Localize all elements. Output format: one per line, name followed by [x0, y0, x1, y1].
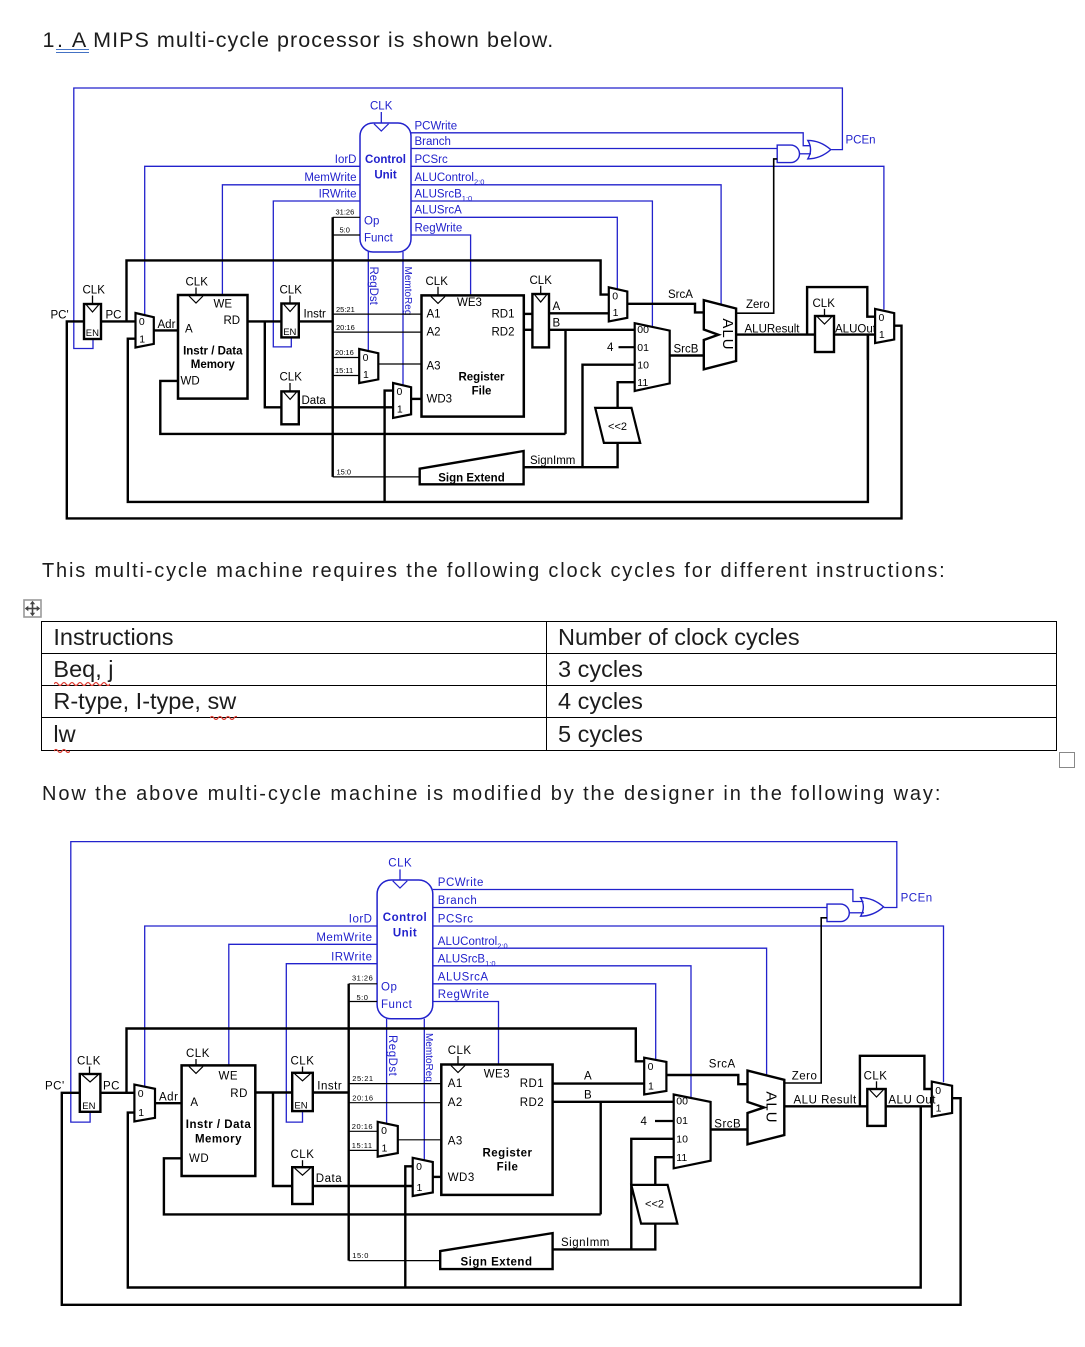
OR gate (PCWrite or branch-taken) [808, 140, 831, 159]
svg-text:10: 10 [637, 359, 649, 371]
svg-text:Instr / Data: Instr / Data [186, 1119, 252, 1131]
label ALUSrcB 1:0 [415, 188, 473, 202]
svg-text:EN: EN [82, 1101, 95, 1112]
ALU (modified) [748, 1071, 785, 1145]
wire Zero to AND gate [736, 159, 777, 313]
svg-text:A: A [185, 324, 193, 336]
svg-text:1: 1 [363, 369, 369, 381]
wire instr 20:16 to A2 [333, 331, 422, 333]
wire IorD to Adr mux select [145, 926, 377, 1087]
svg-text:Sign Extend: Sign Extend [461, 1257, 533, 1269]
wire instr 5:0 to Funct [333, 234, 360, 236]
wire CLK tick into memory [195, 288, 197, 296]
wire PC up and over to SrcA mux input 0 [127, 260, 609, 321]
wire shifted immediate to SrcB mux input 11 [618, 382, 635, 408]
wire ALUResult up-over to result mux input 0 [807, 287, 875, 335]
register Instr [292, 1073, 313, 1112]
svg-text:5:0: 5:0 [357, 993, 369, 1002]
label 20:16 (regdst 0) [352, 1122, 373, 1131]
paragraph 2 [42, 560, 947, 583]
svg-text:CLK: CLK [280, 372, 303, 384]
mux IorD (Adr select) [136, 313, 154, 348]
wire shifted immediate to SrcB mux input 11 [655, 1157, 673, 1185]
wire ALUResult to ALUOut register [784, 1105, 867, 1107]
wire B down to WD path [564, 330, 566, 434]
wire MemtoReg mux to WD3 [411, 398, 421, 400]
wire MemtoReg mux to WD3 [433, 1176, 442, 1178]
svg-text:1: 1 [648, 1080, 654, 1092]
svg-text:Register: Register [482, 1148, 532, 1160]
svg-text:SrcA: SrcA [668, 289, 693, 301]
svg-text:Memory: Memory [191, 359, 236, 371]
svg-text:00: 00 [676, 1095, 688, 1107]
wire AND output to OR input [800, 153, 812, 155]
sign extend unit [420, 451, 524, 485]
label Adr [159, 1092, 178, 1104]
label 20:16 [336, 323, 355, 332]
wire SignImm [553, 1224, 656, 1250]
svg-text:ALUSrcA: ALUSrcA [438, 972, 489, 984]
svg-text:1: 1 [613, 307, 619, 319]
wire Result to PC-prime [67, 321, 902, 518]
mux MemtoReg [413, 1158, 433, 1196]
wire RegDst to RegDst mux select [386, 1019, 388, 1124]
wire ALUSrcB to SrcB mux select [411, 201, 652, 327]
wire CLK tick into PC register [92, 296, 94, 305]
svg-text:Op: Op [364, 216, 379, 228]
wire RD2 to AB register [524, 329, 533, 331]
label 5:0 [340, 225, 350, 234]
mux ALUSrcB [674, 1095, 711, 1169]
svg-text:RD1: RD1 [520, 1078, 545, 1090]
label IorD [349, 914, 373, 926]
wire RegWrite to register file WE3 [411, 235, 471, 295]
register ALUOut [815, 316, 834, 352]
svg-text:EN: EN [294, 1100, 307, 1111]
wire PCWrite to OR gate [411, 133, 811, 146]
svg-text:4: 4 [641, 1116, 648, 1128]
wire instr register output to instr bus [313, 1091, 349, 1093]
svg-text:10: 10 [676, 1133, 688, 1145]
label A (node) [584, 1071, 592, 1083]
wire instr 20:16 to RegDst mux input 0 [349, 1130, 378, 1132]
label CLK (control unit) [388, 858, 412, 870]
svg-text:25:21: 25:21 [336, 305, 355, 314]
svg-text:CLK: CLK [448, 1045, 472, 1057]
label PC [106, 310, 122, 322]
svg-text:A: A [553, 301, 561, 313]
svg-text:B: B [584, 1090, 592, 1102]
wire SrcB to ALU [711, 1128, 748, 1130]
wire RegDst mux to A3 [398, 1139, 442, 1141]
mux PCSrc (result) [932, 1082, 952, 1117]
svg-text:SrcA: SrcA [709, 1059, 736, 1071]
wire CLK tick into control unit [399, 869, 401, 880]
label RegWrite [415, 222, 463, 234]
svg-text:Instr / Data: Instr / Data [183, 345, 243, 357]
label 31:26 [336, 208, 355, 217]
label PC' [51, 310, 69, 322]
wire WD path to memory WD [160, 381, 565, 434]
wire MemtoReg to MemtoReg mux select [423, 1019, 425, 1161]
wire IRWrite to instr register EN [286, 964, 377, 1122]
small square artifact right of table [1059, 752, 1075, 768]
label 31:26 [352, 974, 373, 983]
label 20:16 (regdst 0) [335, 348, 354, 357]
svg-text:A3: A3 [448, 1136, 463, 1148]
diagram: original multicycle MIPS processor [0, 0, 1085, 560]
label CLK (data register) [280, 372, 303, 384]
wire ALUOut feedback up to MemtoReg mux input 0 [405, 1166, 412, 1287]
svg-text:5:0: 5:0 [340, 225, 350, 234]
label Adr [158, 319, 176, 331]
svg-text:0: 0 [139, 316, 145, 328]
svg-text:20:16: 20:16 [352, 1093, 373, 1102]
label ALUSrcA [438, 972, 489, 984]
svg-text:RD1: RD1 [492, 308, 515, 320]
wire CLK tick into ALUOut register [824, 309, 826, 316]
wire data register output to MemtoReg mux input 1 [299, 406, 393, 408]
wire PC up and over to SrcA mux input 0 [127, 1029, 645, 1093]
wire MemtoReg to MemtoReg mux select [402, 252, 404, 386]
svg-text:Data: Data [316, 1173, 342, 1185]
svg-text:25:21: 25:21 [352, 1074, 373, 1083]
wire RD1 (A) to SrcA mux input 1 [553, 1082, 645, 1084]
svg-text:CLK: CLK [186, 277, 209, 289]
wire CLK tick into memory [195, 1059, 197, 1065]
label ALUResult [745, 323, 801, 335]
label MemWrite [304, 172, 356, 184]
label CLK (data register) [291, 1149, 315, 1161]
svg-text:PC: PC [106, 310, 122, 322]
wire RD down to data register [273, 1093, 292, 1187]
wire PCEn to PC register EN [71, 842, 897, 1123]
shifter <<2 [595, 408, 640, 443]
svg-text:1: 1 [382, 1143, 388, 1155]
wire WD path to memory WD [164, 1158, 601, 1214]
svg-text:SrcB: SrcB [674, 344, 699, 356]
svg-text:WD3: WD3 [448, 1172, 475, 1184]
label IorD [335, 154, 357, 166]
label PCSrc [415, 154, 448, 166]
label SignImm [561, 1237, 610, 1249]
wire memory RD to instr register [255, 1091, 292, 1093]
wire IRWrite to instr register EN [273, 201, 360, 347]
label Data [316, 1173, 342, 1185]
label PCWrite [438, 877, 484, 889]
svg-text:WD: WD [181, 375, 200, 387]
wire Zero to AND gate [784, 918, 827, 1083]
svg-text:PCSrc: PCSrc [415, 154, 448, 166]
svg-text:WE: WE [219, 1070, 239, 1082]
label CLK (memory) [186, 277, 209, 289]
label A [553, 301, 561, 313]
svg-text:Zero: Zero [746, 299, 770, 311]
register file [422, 295, 524, 416]
svg-text:IRWrite: IRWrite [319, 188, 357, 200]
svg-text:A1: A1 [427, 308, 441, 320]
svg-text:1: 1 [879, 329, 885, 341]
wire instr 15:0 to sign extend [333, 476, 420, 478]
wire ALUResult up-over to result mux input 0 [860, 1056, 932, 1107]
paragraph 3 [42, 783, 942, 806]
register Data [281, 391, 298, 424]
svg-text:20:16: 20:16 [352, 1122, 373, 1131]
svg-text:CLK: CLK [370, 101, 393, 113]
label ALUControl 2:0 [438, 936, 508, 950]
label Instr [317, 1081, 342, 1093]
svg-text:PCEn: PCEn [901, 892, 933, 904]
mux PCSrc (result) [875, 309, 894, 343]
svg-text:A2: A2 [427, 326, 441, 338]
wire instr 15:11 to RegDst mux input 1 [333, 375, 360, 377]
svg-text:A: A [584, 1071, 592, 1083]
svg-text:CLK: CLK [426, 276, 449, 288]
OR gate (PCWrite or branch-taken) [861, 898, 884, 917]
memory Instr/Data [178, 295, 248, 399]
register Instr [281, 304, 298, 338]
wire SrcA to ALU [627, 304, 704, 313]
sign extend unit [440, 1233, 552, 1269]
wire ALUOut feedback to Adr mux input 1 [128, 1106, 921, 1287]
label Zero [792, 1070, 818, 1082]
wire data register output to MemtoReg mux input 1 [313, 1185, 413, 1187]
svg-text:ALU Out: ALU Out [888, 1095, 936, 1107]
wire instr register output to instr bus [299, 320, 333, 322]
svg-text:CLK: CLK [291, 1149, 315, 1161]
mux RegDst [378, 1122, 398, 1157]
mux MemtoReg [393, 383, 411, 418]
svg-text:0: 0 [612, 291, 618, 303]
svg-text:SignImm: SignImm [561, 1237, 610, 1249]
wire instr 31:26 to Op [349, 983, 377, 985]
wire constant 4 to SrcB mux input 01 [619, 346, 635, 348]
svg-text:RegDst: RegDst [367, 267, 379, 306]
wire ALUOut feedback to Adr mux input 1 [128, 335, 868, 502]
svg-text:Unit: Unit [374, 170, 397, 182]
label 15:0 [337, 468, 352, 477]
register PC [80, 1074, 101, 1112]
svg-text:<<2: <<2 [608, 421, 627, 433]
wire instr 25:21 to A1 [349, 1083, 442, 1085]
svg-text:01: 01 [637, 342, 649, 354]
label Data [302, 395, 327, 407]
label CLK (ALUOut register) [864, 1070, 888, 1082]
svg-text:RegDst: RegDst [386, 1035, 398, 1077]
control unit [360, 123, 411, 252]
label RegWrite [438, 989, 490, 1001]
svg-text:15:0: 15:0 [352, 1251, 369, 1260]
label CLK (PC register) [77, 1056, 101, 1068]
wire RegDst to RegDst mux select [367, 252, 369, 351]
svg-text:RegWrite: RegWrite [438, 989, 490, 1001]
svg-text:CLK: CLK [813, 298, 836, 310]
svg-text:CLK: CLK [530, 275, 553, 287]
label CLK (register file) [448, 1045, 472, 1057]
svg-text:11: 11 [676, 1152, 687, 1164]
label B (node) [584, 1090, 592, 1102]
wire instr 31:26 to Op [333, 216, 360, 218]
svg-text:<<2: <<2 [645, 1199, 664, 1211]
wire CLK tick into instr register [289, 296, 291, 304]
wire instr 15:11 to RegDst mux input 1 [349, 1149, 378, 1151]
label SrcA [709, 1059, 736, 1071]
svg-text:1: 1 [936, 1102, 942, 1114]
wire RD down to data register [265, 321, 282, 407]
register file [441, 1065, 552, 1195]
wire ALUControl to ALU [411, 185, 721, 305]
wire ALUOut to result mux input 1 [834, 333, 875, 335]
wire PCEn to PC register EN [74, 88, 843, 349]
label 15:11 [352, 1141, 373, 1150]
table move handle icon [23, 599, 43, 619]
svg-text:WE: WE [214, 299, 233, 311]
svg-text:Memory: Memory [195, 1134, 242, 1146]
register A/B [532, 294, 549, 347]
svg-text:MemWrite: MemWrite [316, 932, 372, 944]
label 20:16 [352, 1093, 373, 1102]
svg-text:0: 0 [879, 312, 885, 324]
svg-text:Branch: Branch [438, 895, 477, 907]
svg-text:Funct: Funct [381, 999, 413, 1011]
svg-text:IorD: IorD [335, 154, 357, 166]
wire B to SrcB mux input 00 [549, 329, 635, 331]
wire SignImm up to SrcB mux input 10 [583, 365, 635, 468]
svg-text:PC: PC [103, 1081, 120, 1093]
wire SrcB to ALU [670, 354, 704, 356]
svg-text:0: 0 [381, 1125, 387, 1137]
table of clock cycles [41, 621, 1057, 751]
label 15:0 [352, 1251, 369, 1260]
label ALUSrcA [415, 205, 463, 217]
wire PC to Adr mux input 0 [101, 320, 136, 322]
label IRWrite [319, 188, 357, 200]
AND gate (Branch and Zero) [827, 904, 849, 922]
svg-text:Op: Op [381, 982, 397, 994]
svg-text:RD: RD [224, 315, 241, 327]
label CLK (AB register) [530, 275, 553, 287]
svg-text:CLK: CLK [83, 285, 106, 297]
svg-text:PCWrite: PCWrite [438, 877, 484, 889]
wire ALUOut feedback up to MemtoReg mux input 0 [385, 391, 394, 502]
svg-text:Control: Control [383, 912, 427, 924]
diagram: modified multicycle MIPS processor (no A/B register) [0, 830, 1085, 1347]
label CLK (instr register) [280, 285, 303, 297]
svg-text:Instr: Instr [317, 1081, 342, 1093]
control unit (modified) [377, 880, 433, 1019]
label 25:21 [336, 305, 355, 314]
wire instr bus vertical [332, 217, 334, 477]
svg-text:File: File [497, 1162, 519, 1174]
svg-text:1: 1 [417, 1182, 423, 1194]
label CLK (instr register) [291, 1056, 315, 1068]
svg-text:15:11: 15:11 [335, 366, 353, 375]
wire memory RD to instr register [248, 320, 282, 322]
label PC [103, 1081, 120, 1093]
wire Result to PC-prime [62, 1093, 961, 1305]
svg-text:ALU: ALU [719, 318, 736, 350]
shifter <<2 [631, 1185, 677, 1224]
wire CLK tick into instr register [302, 1067, 304, 1073]
svg-text:20:16: 20:16 [336, 323, 355, 332]
ALU [704, 300, 736, 369]
wire instr 20:16 to A2 [349, 1102, 442, 1104]
svg-text:0: 0 [138, 1088, 144, 1100]
label MemtoReg (rotated) [423, 1033, 434, 1082]
label CLK (PC register) [83, 285, 106, 297]
wire ALUOut down to feedback rail [867, 335, 869, 360]
label PCSrc [438, 914, 474, 926]
mux ALUSrcA [644, 1058, 666, 1095]
svg-text:Funct: Funct [364, 233, 394, 245]
wire SignImm up to SrcB mux input 10 [631, 1139, 673, 1250]
svg-text:CLK: CLK [864, 1070, 888, 1082]
wire CLK tick into register file [457, 1056, 459, 1065]
label PC' [45, 1081, 65, 1093]
wire CLK tick into ALUOut register [876, 1081, 878, 1089]
svg-text:Data: Data [302, 395, 327, 407]
wire ALUOut down to feedback rail [920, 1106, 922, 1130]
svg-text:Register: Register [458, 372, 505, 384]
svg-text:Instr: Instr [304, 309, 327, 321]
svg-text:CLK: CLK [291, 1056, 315, 1068]
label ALUControl 2:0 [415, 172, 485, 186]
label MemWrite [316, 932, 372, 944]
label CLK (register file) [426, 276, 449, 288]
svg-text:0: 0 [397, 386, 403, 398]
red spell-check squiggles [54, 680, 110, 686]
svg-text:ALUSrcA: ALUSrcA [415, 205, 463, 217]
svg-text:A1: A1 [448, 1078, 463, 1090]
svg-text:B: B [553, 318, 561, 330]
svg-text:31:26: 31:26 [352, 974, 373, 983]
label SrcA [668, 289, 693, 301]
label Branch [438, 895, 477, 907]
wire ALUControl to ALU [433, 948, 767, 1076]
wire ALUResult to ALUOut register [736, 333, 815, 335]
wire PCWrite to OR gate [433, 890, 864, 902]
label RegDst (rotated) [367, 267, 379, 306]
wire ALUSrcA to SrcA mux select [433, 984, 656, 1060]
svg-text:1: 1 [397, 404, 403, 416]
svg-text:WE3: WE3 [457, 297, 482, 309]
wire MemWrite to memory WE [222, 185, 360, 295]
svg-text:PC': PC' [51, 310, 69, 322]
label MemtoReg (rotated) [402, 267, 413, 316]
wire B down to WD path [600, 1102, 602, 1215]
svg-text:ALU: ALU [763, 1091, 780, 1123]
wire CLK tick into PC register [89, 1067, 91, 1075]
label ALUOut [835, 323, 877, 335]
wire RD2 (B) to SrcB mux input 00 [553, 1101, 674, 1103]
label 5:0 [357, 993, 369, 1002]
svg-text:A2: A2 [448, 1097, 463, 1109]
memory Instr/Data [182, 1065, 256, 1176]
mux ALUSrcA [609, 287, 628, 321]
label Branch [415, 136, 451, 148]
label B [553, 318, 561, 330]
svg-text:0: 0 [648, 1061, 654, 1073]
label CLK (ALUOut register) [813, 298, 836, 310]
svg-text:WE3: WE3 [484, 1068, 510, 1080]
svg-text:1: 1 [139, 333, 145, 345]
wire ALUSrcB to SrcB mux select [433, 966, 691, 1099]
label RegDst (rotated) [386, 1035, 398, 1077]
svg-text:Control: Control [365, 154, 406, 166]
wire instr 25:21 to A1 [333, 313, 422, 315]
svg-text:1: 1 [138, 1107, 144, 1119]
AND gate (Branch and Zero) [777, 145, 799, 163]
